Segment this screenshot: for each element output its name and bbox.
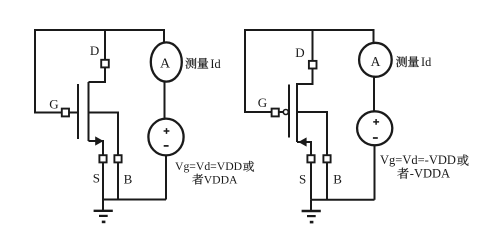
svg-text:A: A <box>160 57 171 72</box>
right circuit: left vertical wire to gate <box>244 29 246 113</box>
right circuit: gate wire <box>244 111 283 113</box>
pad B terminal right <box>323 155 330 162</box>
pad G terminal right <box>272 109 279 117</box>
svg-text:D: D <box>295 45 304 60</box>
ground symbol right <box>302 200 321 222</box>
transistor M2 source arrow (PMOS) <box>298 137 306 146</box>
svg-text:Vg=Vd=VDD: Vg=Vd=VDD <box>175 160 242 173</box>
transistor M2 gate line <box>288 85 290 138</box>
transistor M1 gate line <box>77 84 79 139</box>
left circuit: gate wire <box>34 112 78 114</box>
annotation: measure Id (left) <box>185 58 208 69</box>
pad S terminal <box>99 155 106 162</box>
ammeter A1 circle <box>151 42 182 81</box>
voltage source V2 plus sign <box>373 119 379 125</box>
right circuit: drain wire from top bus to channel <box>297 30 313 84</box>
left circuit: bottom bus <box>103 199 166 201</box>
svg-text:G: G <box>49 96 58 111</box>
transistor M1 bulk wire to B terminal <box>89 113 119 200</box>
svg-text:A: A <box>371 54 381 69</box>
voltage source V1 minus sign <box>164 145 169 147</box>
svg-text:D: D <box>90 43 99 58</box>
left circuit: top supply wire <box>35 29 164 31</box>
svg-text:B: B <box>333 172 342 187</box>
svg-text:Vg=Vd=-VDD: Vg=Vd=-VDD <box>380 153 456 167</box>
transistor M1 channel line <box>88 82 90 141</box>
voltage source V2 circle <box>357 111 392 145</box>
annotation: measure Id (right) <box>396 56 419 67</box>
pad G terminal <box>62 109 69 117</box>
pad D terminal <box>101 60 109 68</box>
right circuit: bottom bus <box>311 199 375 201</box>
right circuit: wire top bus to ammeter <box>373 29 375 43</box>
left circuit: left vertical wire to gate <box>34 29 36 113</box>
transistor M2 bulk wire to B terminal <box>297 112 327 200</box>
svg-text:-VDDA: -VDDA <box>410 167 450 181</box>
voltage source V1 plus sign <box>164 128 170 134</box>
ammeter A2 circle <box>359 43 392 77</box>
svg-text:G: G <box>258 95 267 110</box>
left circuit: drain wire from top bus to channel <box>89 30 106 82</box>
wire source V1 to bottom bus <box>165 155 167 200</box>
transistor M2 source wire to S terminal <box>297 142 311 200</box>
svg-text:B: B <box>124 172 133 187</box>
voltage source V1 circle <box>148 119 183 156</box>
svg-text:Id: Id <box>210 57 220 71</box>
voltage source V2 minus sign <box>373 137 378 139</box>
svg-text:Id: Id <box>421 55 431 69</box>
transistor M2 channel line <box>296 83 298 142</box>
right circuit: top supply wire <box>245 29 374 31</box>
ground symbol left <box>94 200 113 222</box>
wire ammeter to source V1 <box>164 82 166 120</box>
wire source V2 to bottom bus <box>374 145 376 200</box>
annotation line2 <box>192 174 203 185</box>
wire ammeter to source V2 <box>373 77 375 112</box>
svg-text:VDDA: VDDA <box>204 173 238 186</box>
transistor M2 gate bubble (PMOS) <box>283 110 288 115</box>
pad B terminal <box>114 155 121 162</box>
pad S terminal right <box>307 155 314 162</box>
annotation right line2 <box>397 168 408 179</box>
transistor M1 source wire to S terminal <box>89 141 104 200</box>
svg-text:S: S <box>93 171 100 186</box>
left circuit: wire top bus to ammeter <box>163 29 165 43</box>
transistor M1 source arrow (NMOS) <box>95 136 103 145</box>
pad D terminal right <box>309 61 317 69</box>
svg-text:S: S <box>299 172 306 187</box>
